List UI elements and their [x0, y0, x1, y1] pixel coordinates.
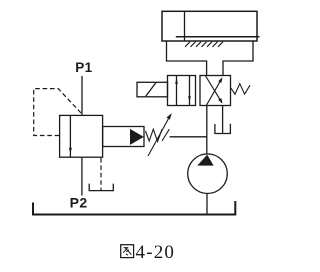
drain line (dashed) to tank [100, 158, 102, 190]
sequence valve body [60, 115, 103, 157]
tank line (reservoir) [33, 201, 235, 215]
check valve box [103, 127, 144, 147]
return spring [231, 84, 251, 95]
hydraulic cylinder body [162, 11, 257, 41]
pump U1 circle [188, 154, 228, 194]
wire: valve port T down to tank [222, 106, 224, 134]
adjustable throttle valve [146, 129, 163, 141]
tank under valve T port [215, 124, 231, 134]
directional valve right position box [200, 76, 231, 106]
svg-text:4-20: 4-20 [136, 242, 176, 263]
sequence valve closed flow line with down arrow [69, 115, 71, 157]
drain tank [89, 184, 113, 191]
flow line arrow up [176, 76, 178, 106]
check valve triangle [130, 129, 144, 145]
wire: cylinder left port to valve port A [167, 41, 207, 76]
wire: pump suction to tank line [206, 193, 208, 214]
flow line arrow down [189, 76, 191, 106]
directional valve left position box [168, 76, 196, 106]
load hatch marks under cylinder [185, 42, 223, 47]
wire: cylinder right port to valve port B [223, 41, 253, 76]
pump flow triangle [197, 155, 213, 166]
wire: throttle outlet to pump line [170, 136, 207, 138]
node P2 line [81, 157, 83, 195]
crossed flow path (down-right arrow) [205, 76, 221, 103]
cylinder piston [184, 11, 186, 41]
svg-text:P2: P2 [70, 194, 88, 210]
cylinder piston rod [176, 36, 260, 38]
caption 图 glyph [121, 245, 134, 258]
node P1 line [81, 76, 83, 115]
wire: valve port P down to pump [206, 106, 208, 155]
throttle adjustment arrow [148, 115, 171, 156]
svg-text:P1: P1 [75, 60, 92, 75]
pilot line (dashed) from P1 to sequence valve spool [34, 89, 81, 136]
crossed flow path (up-right arrow) [206, 79, 221, 106]
solenoid actuator [137, 82, 168, 97]
